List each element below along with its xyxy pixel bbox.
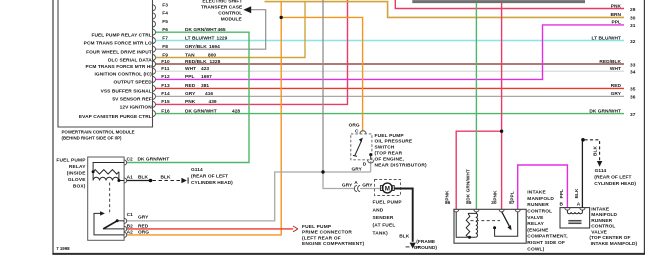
pin F7 [153,38,156,44]
svg-text:FUEL PUMP RELAY CTRL: FUEL PUMP RELAY CTRL [91,32,151,38]
svg-text:BLK: BLK [161,174,171,180]
relay resistor [93,170,119,174]
svg-text:C2: C2 [127,157,134,163]
pin F11 [153,68,156,74]
wire RED B2 to prime connector [127,228,293,230]
svg-text:B: B [559,201,563,207]
page border left [52,0,54,255]
wire GRY connector to pump [360,188,380,190]
IMRC pin 86 [454,209,459,212]
relay pin C1 [124,218,127,223]
wire F10 RED/BLK 1228 to pin 33 [156,63,624,65]
svg-text:VALVE: VALVE [591,229,607,235]
frame ground symbol [410,243,416,249]
switch pin C arc [360,131,366,134]
svg-text:FOUR WHEEL DRIVE INPUT: FOUR WHEEL DRIVE INPUT [86,49,152,55]
svg-text:GRY: GRY [342,182,353,188]
wire F9 TAN 800 riser [156,2,305,58]
svg-text:35: 35 [630,87,636,93]
ground arrow G114 right [597,161,602,167]
wire TAN top / BRN to pin 30 [265,2,625,18]
svg-text:CONTROL: CONTROL [591,224,615,230]
wire BLK pump to frame ground [394,189,412,242]
svg-text:MODULE: MODULE [221,17,243,23]
svg-text:B2: B2 [127,223,134,229]
IMRC 87 internal [495,212,518,237]
svg-text:BLK: BLK [399,234,409,240]
svg-text:BLK: BLK [138,175,148,181]
svg-text:RELAY: RELAY [527,221,544,227]
svg-text:37: 37 [630,112,636,118]
svg-text:ORG: ORG [349,122,360,128]
svg-text:CONTROL: CONTROL [527,209,552,215]
svg-text:SENDER: SENDER [373,215,394,221]
svg-text:(AT FUEL: (AT FUEL [373,223,396,229]
svg-text:34: 34 [630,70,636,76]
svg-text:SWITCH: SWITCH [375,145,395,151]
top gray bar (hot feed) [412,0,585,3]
wire PNK from hot bar to IMRC relay 30 [501,3,503,210]
svg-text:PPL: PPL [612,20,621,26]
svg-text:F4: F4 [162,11,168,17]
svg-text:D: D [363,161,367,167]
svg-text:RUNNER: RUNNER [527,202,549,208]
junction coil right [117,179,120,182]
pin F12 [153,76,156,82]
relay arm contact dot [116,219,119,222]
switch arm [355,140,362,156]
relay C1 internal stub [117,220,124,222]
wire F15 PNK 439 riser [156,0,348,104]
svg-text:RED: RED [138,223,149,229]
svg-text:RED: RED [611,83,622,89]
svg-text:(BEHIND RIGHT SIDE OF I/P): (BEHIND RIGHT SIDE OF I/P) [62,136,123,141]
svg-text:(ENGINE: (ENGINE [527,227,549,233]
PCM box (powertrain control module) [58,0,153,127]
junction ORG [280,16,283,19]
svg-text:(FRAME: (FRAME [416,239,436,245]
wire GRY fuel pump vertical (off page top) [322,0,324,172]
valve pin A [580,208,585,211]
svg-text:OF ENGINE,: OF ENGINE, [375,156,405,162]
svg-text:FUEL PUMP: FUEL PUMP [375,133,405,139]
IMRC valve box [560,208,590,228]
wire PNK to pin 29 [395,0,624,9]
svg-text:PNK: PNK [444,190,450,201]
svg-text:F5: F5 [162,19,168,25]
svg-text:(REAR OF LEFT: (REAR OF LEFT [191,173,228,179]
wire F11 WHT 423 to pin 34 [156,70,624,72]
svg-text:PPL: PPL [559,189,565,198]
svg-text:A2: A2 [127,229,134,235]
pin F13 [153,85,156,91]
svg-text:ELECTRIC SHIFT: ELECTRIC SHIFT [202,0,242,5]
pin F4 [153,13,156,19]
svg-text:RELAY: RELAY [69,164,86,170]
svg-text:7 1998: 7 1998 [56,246,70,251]
svg-text:30: 30 [630,16,636,22]
oil pressure switch box [351,134,372,160]
svg-text:MANIFOLD: MANIFOLD [591,212,617,218]
svg-text:A: A [577,201,581,207]
valve solenoid [567,210,582,214]
svg-text:INTAKE MANIFOLD): INTAKE MANIFOLD) [591,241,638,247]
fuel pump box [375,180,401,196]
svg-text:OUTPUT SPEED: OUTPUT SPEED [114,80,153,86]
relay A2 internal wire [94,213,124,235]
svg-text:NEAR DISTRIBUTOR): NEAR DISTRIBUTOR) [375,162,427,168]
junction coil left [92,170,95,173]
svg-text:CYLINDER HEAD): CYLINDER HEAD) [191,180,233,186]
svg-text:BOX): BOX) [73,183,86,189]
svg-text:DLC SERIAL DATA: DLC SERIAL DATA [108,58,152,64]
relay actuator dashed [109,183,111,213]
svg-text:RED/BLK: RED/BLK [599,59,621,65]
svg-text:COWL): COWL) [527,246,544,252]
svg-text:CYLINDER HEAD): CYLINDER HEAD) [594,181,636,187]
wire GRY switch D drop [370,161,372,172]
wire GRY relay C1 to junction [127,172,371,221]
svg-text:GROUND): GROUND) [414,245,438,251]
relay pin C2 [124,160,127,165]
IMRC actuator dashed [471,220,501,222]
svg-text:BLK: BLK [574,188,580,198]
svg-text:INTAKE: INTAKE [527,190,546,196]
ground arrow G114 left [181,178,186,183]
wire F14 GRY 416 to pin 36 [156,95,624,97]
pin F16 [153,111,156,117]
wire PPL IMRC relay 87 to valve B [518,165,568,209]
svg-text:(REAR OF LEFT: (REAR OF LEFT [594,175,631,181]
pin F14 [153,93,156,99]
svg-text:(TOP CENTER OF: (TOP CENTER OF [589,235,630,241]
IMRC coil [466,212,477,238]
svg-text:ENGINE COMPARTMENT): ENGINE COMPARTMENT) [302,241,364,247]
svg-text:C1: C1 [127,212,134,218]
arrow to transfer case module [243,6,251,13]
svg-text:12V IGNITION: 12V IGNITION [120,105,153,111]
relay fixed contact arrow [100,211,105,215]
svg-text:LT BLU/WHT: LT BLU/WHT [592,35,621,41]
splice dot [149,179,153,183]
switch pin D arc [368,160,374,163]
svg-text:ORG: ORG [138,229,149,235]
svg-text:POWERTRAIN CONTROL MODULE: POWERTRAIN CONTROL MODULE [62,129,135,134]
wire F8 GRY/BLK 1694 [156,10,266,50]
svg-text:GRY: GRY [362,182,373,188]
fuel pump relay box [88,157,124,240]
svg-text:CONTROL: CONTROL [218,11,242,17]
svg-text:VSS BUFFER SIGNAL: VSS BUFFER SIGNAL [101,89,152,95]
svg-text:BLK: BLK [593,146,599,156]
wire PNK branch to IMRC relay 86 [456,131,501,209]
pin F3 [153,5,156,11]
relay B2 internal wire [103,228,124,230]
svg-text:RIGHT SIDE OF: RIGHT SIDE OF [527,240,565,246]
svg-text:TANK): TANK) [373,230,389,236]
svg-text:AND: AND [373,207,384,213]
wire ORG branch to oil pressure switch [281,17,362,131]
svg-text:IGNITION CONTROL (IC): IGNITION CONTROL (IC) [95,71,153,77]
page border bottom [52,253,645,255]
pin F10 [153,61,156,67]
svg-text:PRIME CONNECTOR: PRIME CONNECTOR [302,230,352,236]
svg-text:TRANSFER CASE: TRANSFER CASE [201,5,243,11]
IMRC fixed contact dot [493,226,496,229]
svg-text:36: 36 [630,95,636,101]
svg-text:PCM TRANS FORCE MTR LO: PCM TRANS FORCE MTR LO [84,41,152,47]
pin F9 [153,55,156,61]
svg-text:BRN: BRN [610,12,621,18]
svg-text:INTAKE: INTAKE [591,206,610,212]
relay pin A2 [124,232,127,237]
svg-text:GLOVE: GLOVE [68,177,86,183]
svg-text:(TOP REAR: (TOP REAR [375,151,403,157]
svg-text:(LEFT REAR OF: (LEFT REAR OF [302,235,341,241]
IMRC relay box [454,209,526,243]
pin F5 [153,21,156,27]
relay pin A1 [124,178,127,183]
svg-text:DK GRN/WHT: DK GRN/WHT [465,169,471,201]
svg-text:MANIFOLD: MANIFOLD [527,196,554,202]
svg-text:29: 29 [630,7,636,13]
svg-text:EVAP CANISTER PURGE CTRL: EVAP CANISTER PURGE CTRL [79,114,152,120]
junction coil bottom [468,236,471,239]
svg-text:GRY: GRY [611,91,622,97]
dashed BLK to ground right [585,140,600,161]
IMRC pin 30 [499,209,504,212]
wire ORG battery feed to relay A2 [127,2,281,235]
svg-text:FUEL PUMP: FUEL PUMP [302,224,332,230]
dashed BLK to G114 [153,180,182,182]
svg-text:PNK: PNK [492,190,498,201]
pin F8 [153,46,156,52]
svg-text:A1: A1 [127,175,134,181]
IMRC switch arm [502,212,510,228]
svg-text:OIL PRESSURE: OIL PRESSURE [375,139,413,145]
svg-text:5V SENSOR REF: 5V SENSOR REF [112,97,151,103]
svg-text:G114: G114 [191,167,203,173]
wire F6 DK GRN/WHT 465 to relay C2 [127,32,249,162]
svg-text:DK GRN/WHT: DK GRN/WHT [589,108,621,114]
svg-text:GRY: GRY [138,214,149,220]
svg-text:DK GRN/WHT: DK GRN/WHT [138,157,170,163]
svg-text:RUNNER: RUNNER [591,218,612,224]
wire BLK valve A up [581,140,583,208]
svg-text:PNK: PNK [611,3,622,9]
svg-text:FUEL PUMP: FUEL PUMP [373,200,403,206]
svg-text:32: 32 [630,39,636,45]
svg-text:C: C [355,128,359,134]
svg-text:GRY: GRY [352,166,363,172]
svg-text:(INSIDE: (INSIDE [67,170,86,176]
fuel pump prime connector arrow [293,226,298,232]
svg-text:PCM TRANS FORCE MTR HI: PCM TRANS FORCE MTR HI [86,64,153,70]
wire F12 PPL 1697 to pin 31 [156,25,624,80]
pin F15 [153,101,156,107]
wire F7 LT BLU/WHT 1229 to pin 32 [156,40,624,42]
relay coil feed wire [93,163,124,172]
wire A1 BLK to splice [127,180,151,182]
relay switch arm [103,221,117,229]
splice dot BLK [581,138,585,142]
junction GRY [321,170,324,173]
svg-text:COMPARTMENT,: COMPARTMENT, [527,234,568,240]
svg-text:PPL: PPL [510,191,516,200]
switch D contact [369,153,372,156]
IMRC pin 85 [474,209,479,212]
junction PNK [500,130,503,133]
svg-text:VALVE: VALVE [527,215,544,221]
relay pin B2 [124,226,127,231]
svg-text:33: 33 [630,62,636,68]
svg-text:G114: G114 [595,168,607,174]
pin F6 [153,29,156,35]
valve pin B [565,208,570,211]
IMRC pin 87 [515,209,520,212]
svg-text:WHT: WHT [610,66,621,72]
IMRC coil feed [456,212,476,238]
wire F13 RED 381 to pin 35 [156,87,624,89]
svg-text:31: 31 [630,23,636,29]
svg-text:F3: F3 [162,3,168,9]
wire DK GRN/WHT from hot bar to IMRC relay 85 [475,3,477,210]
relay coil [93,172,124,181]
svg-text:FUEL PUMP: FUEL PUMP [56,157,86,163]
fuel pump motor M [382,183,392,193]
wire F16 DK GRN/WHT 428 to pin 37 [156,113,624,115]
page border right [643,0,645,255]
svg-text:M: M [385,185,390,192]
wire GRY junction down to pump [323,172,354,189]
